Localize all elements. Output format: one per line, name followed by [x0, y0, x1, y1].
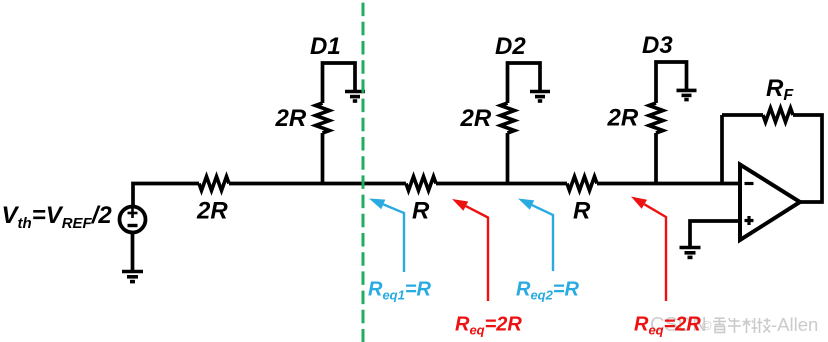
resistor 2R (vertical, D3)	[649, 103, 663, 133]
svg-text:2R: 2R	[607, 105, 639, 132]
green dashed cut line	[362, 3, 365, 342]
wire main line segment node2	[436, 182, 567, 186]
resistor RF (feedback)	[763, 108, 793, 122]
wire feedback left vertical	[720, 115, 724, 185]
svg-text:2R: 2R	[275, 105, 307, 132]
svg-text:R: R	[412, 198, 430, 225]
wire feedback top left	[722, 113, 763, 117]
ground (D2)	[530, 92, 550, 102]
svg-text:D3: D3	[642, 32, 673, 59]
wire D3 top	[656, 62, 687, 103]
svg-text:D2: D2	[495, 33, 526, 60]
arrow red 2	[644, 204, 666, 301]
svg-text:Req=2R: Req=2R	[634, 314, 701, 338]
wire branch D3 vertical	[654, 133, 658, 185]
resistor 2R (vertical, D1)	[316, 103, 330, 133]
svg-text:RF: RF	[766, 75, 794, 104]
op-amp plus symbol	[745, 216, 754, 225]
ground (source)	[122, 272, 143, 282]
watermark CJK glyph 2 (niu)	[728, 318, 741, 333]
svg-text:Vth=VREF/2: Vth=VREF/2	[2, 202, 113, 232]
ground (D1)	[345, 92, 365, 102]
wire source to ground	[131, 233, 135, 272]
wire main line segment to op-amp	[597, 182, 740, 186]
wire main line left segment	[133, 184, 199, 206]
resistor 2R (horizontal, input)	[199, 177, 229, 191]
arrow red 1	[466, 206, 488, 301]
svg-text:©: ©	[702, 318, 712, 333]
svg-text:-Allen: -Allen	[771, 314, 818, 335]
op-amp U1 triangle	[740, 165, 800, 241]
wire D1 top	[323, 63, 356, 103]
wire main line segment node1	[229, 182, 406, 186]
resistor R2 (horizontal)	[567, 177, 597, 191]
watermark CJK glyph 1 (qing)	[713, 318, 726, 333]
wire D2 top	[508, 63, 541, 103]
arrow cyan 2	[532, 205, 553, 271]
watermark CJK glyph 4 (ji)	[757, 318, 771, 333]
ground (D3)	[677, 90, 697, 99]
svg-text:R: R	[573, 198, 591, 225]
wire branch D2 vertical	[506, 133, 510, 185]
svg-text:2R: 2R	[196, 198, 228, 225]
source minus symbol	[128, 224, 138, 227]
wire feedback top right and output	[793, 115, 822, 202]
watermark CJK glyph 3 (ke)	[743, 318, 758, 333]
svg-text:Req2=R: Req2=R	[516, 279, 580, 303]
svg-text:Req1=R: Req1=R	[368, 279, 432, 303]
svg-text:D1: D1	[310, 33, 341, 60]
source plus symbol	[128, 208, 138, 218]
voltage source V1 circle	[120, 207, 146, 233]
arrow cyan 1	[383, 204, 404, 272]
resistor R1 (horizontal)	[406, 177, 436, 191]
svg-text:Req=2R: Req=2R	[455, 314, 522, 338]
ground (op-amp +)	[680, 248, 701, 258]
op-amp minus symbol	[745, 182, 754, 185]
wire branch D1 vertical	[321, 133, 325, 185]
wire non-inverting input	[690, 221, 740, 247]
resistor 2R (vertical, D2)	[501, 103, 515, 133]
svg-text:2R: 2R	[460, 105, 492, 132]
